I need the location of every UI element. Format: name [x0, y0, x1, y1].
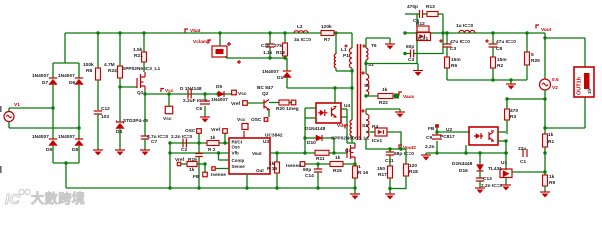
svg-text:1N4007: 1N4007: [58, 73, 75, 79]
svg-text:ICv1: ICv1: [372, 138, 382, 144]
svg-text:R24: R24: [108, 68, 117, 74]
svg-text:D1N4448: D1N4448: [452, 161, 473, 167]
svg-text:D6: D6: [69, 80, 75, 86]
svg-text:C7: C7: [151, 139, 157, 145]
svg-text:R21: R21: [134, 53, 143, 59]
svg-text:R17: R17: [378, 172, 387, 178]
svg-text:60p: 60p: [406, 44, 414, 50]
svg-text:Osc: Osc: [232, 145, 241, 150]
svg-text:R13: R13: [426, 4, 435, 10]
svg-text:2.2n: 2.2n: [425, 144, 435, 150]
svg-text:D1: D1: [277, 75, 283, 81]
svg-text:1.1k: 1.1k: [263, 50, 273, 56]
svg-text:C12: C12: [101, 106, 110, 112]
svg-text:Q3: Q3: [345, 148, 352, 153]
svg-text:S2: S2: [364, 83, 370, 89]
svg-text:U3: U3: [263, 139, 269, 145]
svg-text:1k: 1k: [382, 87, 388, 93]
svg-text:R25: R25: [531, 58, 540, 64]
svg-text:Vcc: Vcc: [163, 116, 172, 122]
svg-text:120: 120: [409, 163, 417, 169]
svg-text:C3: C3: [450, 46, 456, 52]
svg-text:FB: FB: [428, 126, 435, 132]
svg-text:R15: R15: [333, 168, 342, 174]
svg-text:R22: R22: [379, 100, 388, 106]
svg-text:470: 470: [510, 108, 518, 114]
svg-text:R3: R3: [510, 114, 516, 120]
svg-text:IC: IC: [5, 191, 21, 208]
svg-text:OUT1h: OUT1h: [577, 76, 583, 95]
svg-text:R 16: R 16: [267, 166, 277, 172]
svg-text:C11: C11: [385, 158, 394, 164]
svg-text:1k: 1k: [189, 167, 195, 173]
svg-text:R9: R9: [549, 180, 555, 186]
svg-text:C14: C14: [305, 173, 314, 179]
svg-text:U1: U1: [501, 160, 507, 166]
svg-text:大數跨境: 大數跨境: [31, 191, 85, 206]
svg-text:D9: D9: [46, 147, 52, 153]
svg-text:U4: U4: [344, 103, 350, 109]
svg-text:Vref: Vref: [211, 127, 220, 133]
svg-text:1k: 1k: [210, 135, 216, 141]
svg-text:Vref: Vref: [231, 101, 240, 107]
svg-text:R 2: R 2: [208, 147, 216, 153]
svg-text:R 16: R 16: [358, 170, 368, 176]
svg-text:SPP02N60C3_L1: SPP02N60C3_L1: [331, 136, 369, 142]
svg-text:BC 847: BC 847: [257, 85, 274, 91]
svg-text:L2: L2: [297, 24, 303, 30]
svg-text:1N4007: 1N4007: [32, 73, 49, 79]
svg-text:R8: R8: [86, 68, 92, 74]
svg-text:22u: 22u: [518, 146, 526, 152]
svg-text:R7: R7: [324, 37, 330, 43]
svg-text:2.2n IC=0: 2.2n IC=0: [171, 134, 193, 140]
svg-text:Vaux: Vaux: [403, 94, 415, 100]
svg-text:1: 1: [358, 164, 361, 170]
svg-text:SPP02N60C3_L1: SPP02N60C3_L1: [122, 66, 160, 72]
svg-text:C16: C16: [261, 43, 270, 49]
svg-text:0.5: 0.5: [552, 77, 559, 83]
svg-text:OSC: OSC: [251, 117, 262, 123]
svg-text:C4: C4: [408, 57, 414, 63]
svg-text:D1N4148: D1N4148: [305, 126, 326, 132]
svg-text:Isense: Isense: [211, 172, 226, 178]
svg-text:C8: C8: [496, 46, 502, 52]
svg-text:C9: C9: [426, 135, 432, 141]
svg-text:D16: D16: [459, 168, 468, 174]
svg-text:2.2n IC=0: 2.2n IC=0: [481, 183, 503, 189]
svg-text:UC3842: UC3842: [265, 133, 283, 139]
svg-text:Comp: Comp: [232, 158, 245, 163]
svg-text:T6: T6: [371, 43, 377, 49]
svg-text:150: 150: [377, 166, 385, 172]
svg-text:V1: V1: [14, 102, 20, 108]
svg-text:470p: 470p: [407, 4, 418, 10]
svg-text:Out: Out: [256, 168, 264, 173]
svg-text:Vout2: Vout2: [403, 145, 416, 151]
svg-text:1u IC=0: 1u IC=0: [456, 23, 474, 29]
svg-text:ICv1: ICv1: [418, 36, 428, 42]
svg-text:Vout: Vout: [541, 27, 552, 33]
svg-text:120k: 120k: [321, 24, 332, 30]
svg-text:TL431: TL431: [488, 166, 502, 172]
svg-text:Vout: Vout: [252, 151, 262, 156]
svg-text:Vfb: Vfb: [232, 151, 240, 156]
svg-text:R18: R18: [276, 50, 285, 56]
svg-text:1k: 1k: [335, 155, 341, 161]
svg-text:1N4007: 1N4007: [58, 134, 75, 140]
svg-text:D7: D7: [42, 80, 48, 86]
svg-text:47u IC=0: 47u IC=0: [496, 39, 516, 45]
svg-text:R6: R6: [451, 63, 457, 69]
svg-text:Sense: Sense: [232, 164, 246, 169]
svg-text:D10: D10: [307, 140, 316, 146]
svg-text:Vcc: Vcc: [237, 117, 246, 123]
svg-text:OSC: OSC: [185, 128, 196, 134]
svg-text:Isense: Isense: [286, 163, 301, 169]
svg-text:R20 1meg: R20 1meg: [276, 106, 299, 112]
svg-text:1.5k: 1.5k: [133, 47, 143, 53]
svg-text:C1: C1: [520, 159, 526, 165]
svg-text:C2: C2: [181, 147, 187, 153]
svg-text:R2: R2: [497, 63, 503, 69]
svg-text:15m: 15m: [497, 57, 507, 63]
svg-text:R1: R1: [548, 139, 554, 145]
svg-text:P1: P1: [343, 53, 349, 59]
svg-text:R11: R11: [316, 156, 325, 162]
svg-text:5: 5: [531, 52, 534, 58]
svg-text:Q1: Q1: [137, 90, 144, 96]
svg-text:1k: 1k: [548, 132, 554, 138]
svg-text:47u IC=0: 47u IC=0: [450, 39, 470, 45]
svg-text:D4: D4: [116, 129, 122, 135]
svg-text:R18: R18: [409, 169, 418, 175]
svg-text:S3: S3: [362, 123, 368, 129]
svg-text:FB: FB: [193, 174, 200, 180]
svg-text:1h: 1h: [587, 88, 592, 94]
svg-text:Q2: Q2: [262, 91, 269, 97]
svg-text:Vcc: Vcc: [238, 91, 247, 97]
svg-text:C6: C6: [196, 106, 202, 112]
svg-text:15m: 15m: [451, 57, 461, 63]
svg-text:R12: R12: [416, 21, 425, 27]
svg-text:C13: C13: [483, 176, 492, 182]
svg-text:Vcc: Vcc: [165, 88, 174, 94]
svg-text:1N4007: 1N4007: [32, 134, 49, 140]
svg-text:27k: 27k: [274, 43, 282, 49]
svg-text:103: 103: [101, 114, 109, 120]
svg-text:68p IC=0: 68p IC=0: [394, 151, 414, 157]
svg-text:V2: V2: [552, 85, 558, 91]
svg-text:4.7M: 4.7M: [104, 62, 115, 68]
svg-text:100k: 100k: [83, 62, 94, 68]
svg-text:D8: D8: [72, 147, 78, 153]
svg-text:L1: L1: [341, 47, 347, 53]
svg-text:D5: D5: [216, 84, 222, 90]
svg-text:Vref: Vref: [175, 157, 184, 163]
svg-text:U2: U2: [446, 127, 452, 133]
svg-text:1k: 1k: [549, 174, 555, 180]
svg-text:3a IC=0: 3a IC=0: [294, 37, 311, 43]
svg-text:1N4007: 1N4007: [262, 69, 279, 75]
svg-text:60p: 60p: [303, 167, 311, 173]
svg-text:PC817: PC817: [440, 134, 455, 140]
svg-text:Vbat: Vbat: [190, 28, 201, 34]
svg-text:1N4007: 1N4007: [211, 97, 228, 103]
